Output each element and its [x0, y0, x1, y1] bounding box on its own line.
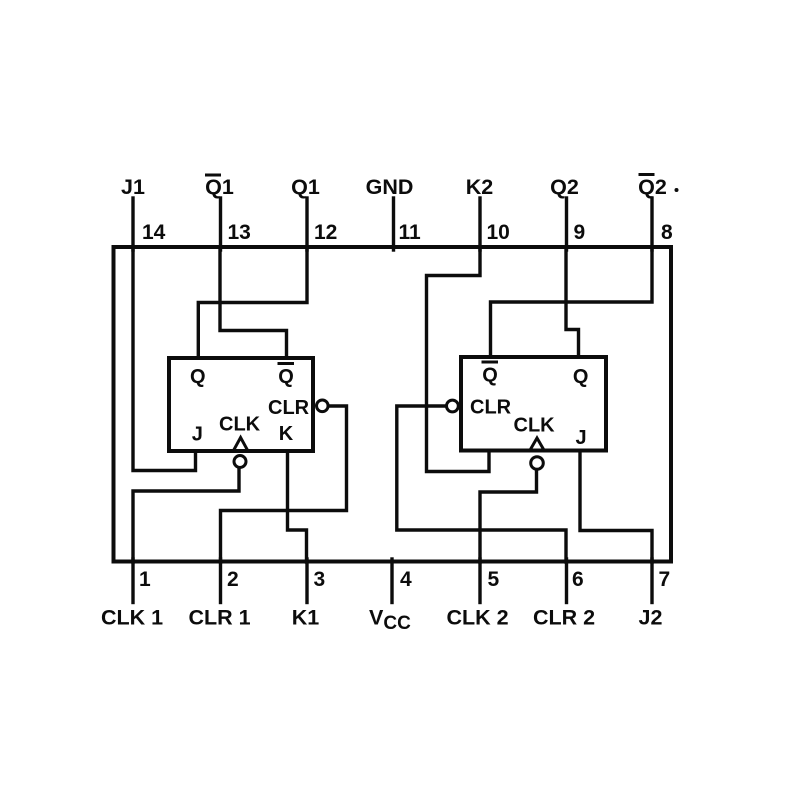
svg-text:CLR 2: CLR 2 — [533, 606, 595, 630]
wire K1 net (U1 K to pin 3) — [288, 451, 307, 562]
svg-text:CLR 1: CLR 1 — [188, 606, 250, 630]
svg-text:CLK 1: CLK 1 — [101, 606, 163, 630]
svg-text:CLK: CLK — [219, 414, 261, 436]
svg-text:Q: Q — [278, 366, 294, 388]
U2 CLK bubble — [531, 457, 544, 470]
wire CLK2 net (pin 5 to U2 CLK bubble) — [480, 470, 537, 562]
svg-text:9: 9 — [574, 221, 586, 244]
wire J2 net (pin 7 to U2 J) — [580, 451, 652, 562]
pin 6 stub — [565, 559, 568, 603]
svg-text:3: 3 — [314, 568, 326, 591]
svg-text:J: J — [575, 427, 586, 449]
svg-text:J2: J2 — [639, 606, 663, 630]
svg-text:Q: Q — [482, 365, 498, 387]
wire CLK1 net (pin 1 to U1 CLK bubble) — [133, 468, 239, 562]
stray dot after Q2bar — [675, 188, 679, 192]
pin 4 stub — [390, 559, 393, 603]
U2 CLR bubble — [447, 400, 459, 412]
svg-text:CLK: CLK — [514, 415, 556, 437]
flip-flop U1 box — [169, 358, 313, 451]
svg-text:5: 5 — [488, 568, 500, 591]
svg-text:CLR: CLR — [268, 397, 310, 419]
U2 CLK edge triangle — [530, 438, 544, 451]
pin 12 stub — [305, 198, 308, 250]
wire CLR2 net (pin 6 to U2 CLR bubble) — [397, 406, 566, 562]
svg-text:7: 7 — [659, 568, 671, 591]
svg-text:Q1: Q1 — [291, 175, 320, 199]
svg-text:CLR: CLR — [470, 397, 512, 419]
wire Q1 net (pin 12 to U1 Q) — [198, 248, 307, 358]
U1 CLK bubble — [234, 456, 246, 468]
IC package outline — [114, 247, 672, 562]
svg-text:Q: Q — [190, 366, 206, 388]
pin 9 stub — [565, 198, 568, 250]
svg-text:Q: Q — [573, 366, 589, 388]
pin 2 stub — [219, 559, 222, 603]
wire Q2 net (pin 9 to U2 Q) — [566, 248, 579, 357]
pin 14 stub — [131, 198, 134, 250]
svg-text:Q1: Q1 — [205, 175, 234, 199]
svg-text:1: 1 — [139, 568, 151, 591]
svg-text:11: 11 — [399, 221, 422, 244]
wire Q2bar net (pin 8 to U2 Qbar) — [491, 248, 653, 357]
pin 11 stub — [392, 198, 395, 250]
pin 10 stub — [478, 198, 481, 250]
svg-text:12: 12 — [314, 221, 337, 244]
svg-text:K2: K2 — [466, 175, 494, 199]
flip-flop U2 box — [461, 357, 606, 451]
pin 13 stub — [219, 198, 222, 250]
U1 CLR bubble — [317, 400, 329, 412]
wire CLR1 net (U1 CLR bubble to pin 2) — [221, 406, 347, 562]
wire Q1bar net (pin 13 to U1 Qbar) — [220, 248, 287, 358]
pin 8 stub — [650, 198, 653, 250]
svg-text:6: 6 — [572, 568, 584, 591]
svg-text:Q2: Q2 — [550, 175, 579, 199]
svg-text:CLK 2: CLK 2 — [446, 606, 508, 630]
pin 1 stub — [131, 559, 134, 603]
pin 7 stub — [650, 559, 653, 603]
svg-text:K: K — [279, 423, 294, 445]
svg-text:8: 8 — [661, 221, 673, 244]
pin 3 stub — [305, 559, 308, 603]
svg-text:4: 4 — [400, 568, 412, 591]
svg-text:14: 14 — [142, 221, 166, 244]
wire J1 net (pin 14 to U1 J) — [133, 248, 196, 471]
wire K2 net (pin 10 to U2 K) — [427, 248, 490, 472]
svg-text:Q2: Q2 — [638, 175, 667, 199]
U1 CLK edge triangle — [234, 438, 248, 451]
svg-text:10: 10 — [487, 221, 510, 244]
svg-text:J: J — [192, 424, 203, 446]
svg-text:2: 2 — [227, 568, 239, 591]
svg-text:GND: GND — [366, 175, 414, 199]
pin 5 stub — [478, 559, 481, 603]
svg-text:K1: K1 — [292, 606, 320, 630]
svg-text:13: 13 — [228, 221, 251, 244]
svg-text:J1: J1 — [121, 175, 145, 199]
